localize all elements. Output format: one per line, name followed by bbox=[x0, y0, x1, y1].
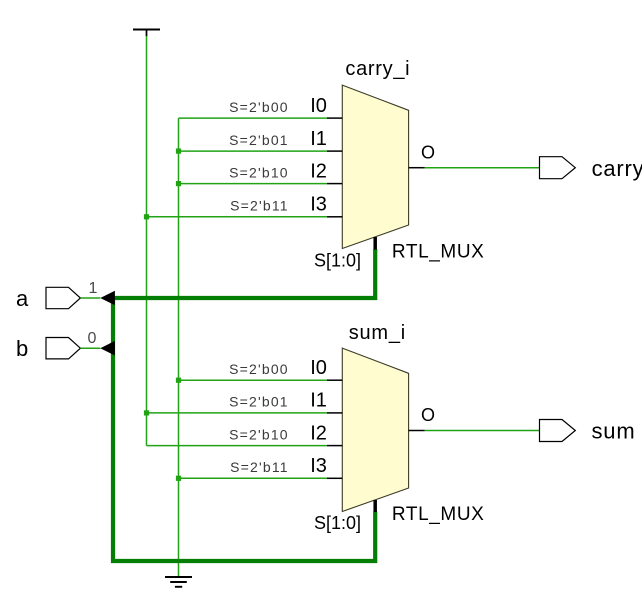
wire sum I2 bbox=[147, 445, 328, 447]
junction sum I0 bbox=[176, 378, 181, 383]
svg-text:S[1:0]: S[1:0] bbox=[314, 513, 361, 533]
svg-text:I2: I2 bbox=[310, 160, 327, 182]
svg-text:RTL_MUX: RTL_MUX bbox=[392, 504, 485, 525]
mux sum_i body U2 bbox=[342, 348, 408, 511]
junction sum I1 bbox=[144, 410, 149, 415]
wire net B vertical (to ground) bbox=[178, 118, 180, 577]
wire carry I2 bbox=[179, 183, 328, 185]
arrow b into bus bbox=[100, 341, 115, 356]
wire from a port bbox=[80, 297, 100, 299]
input port b bbox=[46, 338, 80, 359]
svg-text:I2: I2 bbox=[310, 422, 327, 444]
junction sum I3 bbox=[176, 476, 181, 481]
svg-text:carry_i: carry_i bbox=[345, 58, 410, 80]
wire sum O bbox=[425, 430, 540, 432]
svg-text:O: O bbox=[421, 405, 435, 425]
wire carry I0 bbox=[179, 117, 328, 119]
svg-text:a: a bbox=[16, 286, 29, 311]
wire carry O bbox=[425, 167, 540, 169]
sum pin stub O bbox=[409, 430, 425, 432]
svg-text:S=2'b10: S=2'b10 bbox=[229, 426, 289, 442]
svg-text:S=2'b11: S=2'b11 bbox=[230, 198, 289, 214]
svg-text:I3: I3 bbox=[310, 194, 327, 216]
wire sum I0 bbox=[179, 379, 328, 381]
svg-text:b: b bbox=[16, 336, 28, 361]
wire sum I1 bbox=[147, 412, 328, 414]
output port sum bbox=[540, 420, 576, 442]
svg-text:sum_i: sum_i bbox=[349, 322, 406, 344]
carry pin stub I1 bbox=[327, 150, 342, 152]
svg-text:S[1:0]: S[1:0] bbox=[314, 251, 361, 271]
wire net A vertical (from power) bbox=[146, 36, 148, 446]
carry pin stub I2 bbox=[327, 183, 342, 185]
svg-text:O: O bbox=[421, 142, 435, 162]
wire from b port bbox=[80, 347, 100, 349]
junction carry I2 bbox=[176, 181, 181, 186]
thick bus: a/b select net bbox=[113, 249, 375, 561]
junction carry I3 bbox=[144, 214, 149, 219]
svg-text:sum: sum bbox=[592, 419, 636, 444]
svg-text:I0: I0 bbox=[310, 95, 327, 117]
sum pin stub I3 bbox=[327, 477, 342, 479]
svg-text:RTL_MUX: RTL_MUX bbox=[392, 242, 485, 263]
ground symbol bbox=[165, 577, 192, 587]
svg-text:S=2'b11: S=2'b11 bbox=[230, 459, 289, 475]
carry pin stub I3 bbox=[327, 216, 342, 218]
arrow a into bus bbox=[100, 291, 115, 306]
svg-text:I1: I1 bbox=[310, 128, 327, 150]
svg-text:S=2'b01: S=2'b01 bbox=[229, 394, 289, 410]
carry pin stub O bbox=[409, 167, 425, 169]
carry pin stub S bbox=[373, 237, 377, 250]
junction carry I1 bbox=[176, 149, 181, 154]
svg-text:I1: I1 bbox=[310, 390, 327, 412]
carry pin stub I0 bbox=[327, 117, 342, 119]
svg-text:carry: carry bbox=[592, 156, 642, 181]
svg-text:S=2'b01: S=2'b01 bbox=[229, 132, 289, 148]
sum pin stub I0 bbox=[327, 379, 342, 381]
output port carry bbox=[540, 157, 576, 179]
input port a bbox=[46, 287, 80, 308]
sum pin stub I2 bbox=[327, 445, 342, 447]
svg-text:S=2'b00: S=2'b00 bbox=[229, 361, 289, 377]
svg-text:I3: I3 bbox=[310, 455, 327, 477]
wire carry I1 bbox=[179, 150, 328, 152]
svg-text:0: 0 bbox=[88, 330, 97, 347]
svg-text:S=2'b00: S=2'b00 bbox=[229, 99, 289, 115]
svg-text:I0: I0 bbox=[310, 357, 327, 379]
svg-text:1: 1 bbox=[89, 280, 98, 297]
sum pin stub S bbox=[373, 500, 377, 512]
mux carry_i body U1 bbox=[342, 85, 408, 248]
wire carry I3 bbox=[147, 216, 328, 218]
wire sum I3 bbox=[179, 477, 328, 479]
sum pin stub I1 bbox=[327, 412, 342, 414]
svg-text:S=2'b10: S=2'b10 bbox=[229, 164, 289, 180]
power symbol VCC bbox=[133, 30, 160, 37]
